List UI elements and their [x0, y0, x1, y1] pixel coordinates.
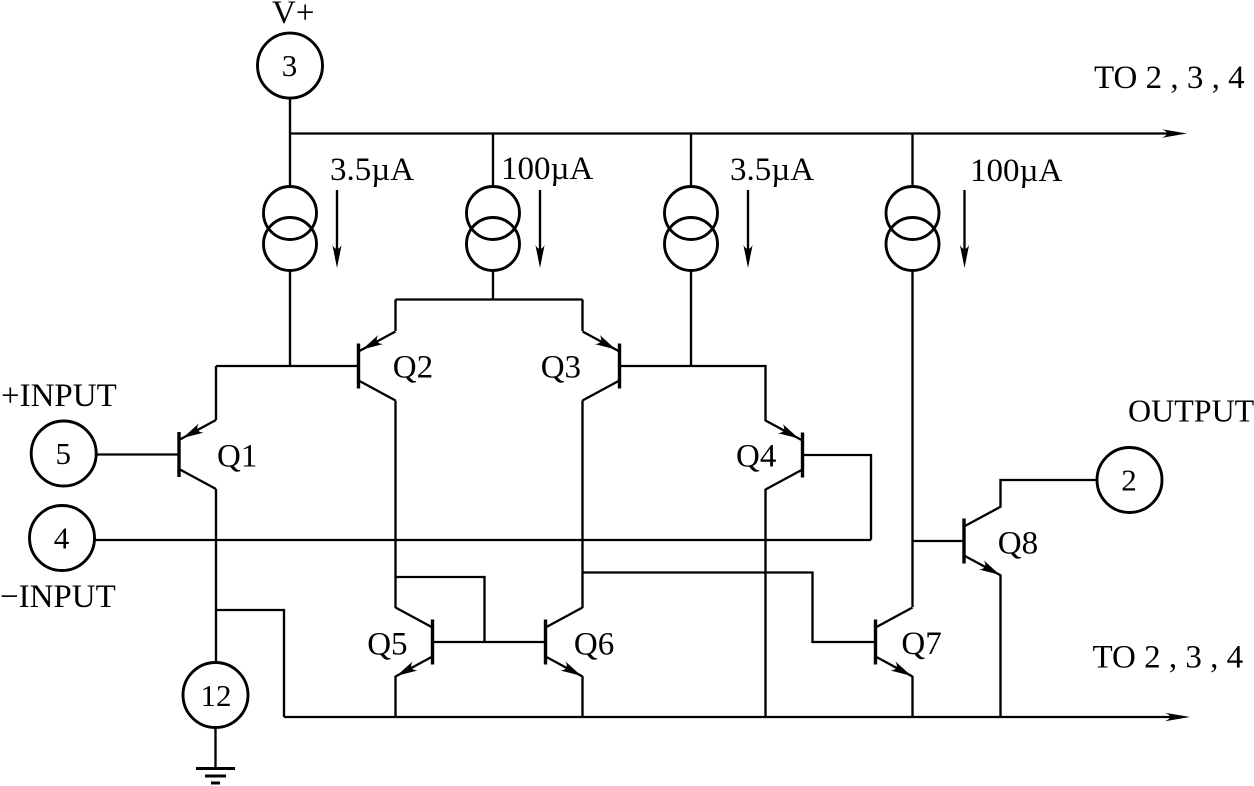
label 100uA (I4): [970, 153, 1063, 189]
top rail arrowhead: [1162, 129, 1187, 137]
label 3.5uA (I1): [330, 152, 414, 188]
svg-text:3.5µA: 3.5µA: [330, 152, 414, 188]
svg-text:3.5µA: 3.5µA: [730, 152, 814, 188]
wire Q3 base to Q4: [620, 366, 766, 421]
wire pin5 to Q1 base: [96, 453, 179, 455]
svg-text:OUTPUT: OUTPUT: [1128, 393, 1254, 429]
wire rail to I4: [911, 134, 913, 188]
svg-text:Q4: Q4: [736, 439, 776, 475]
pin 3 (V+): [258, 33, 323, 98]
transistor Q5: [367, 608, 432, 681]
svg-text:12: 12: [201, 678, 232, 713]
pin 4 (-input): [30, 506, 95, 571]
wire pin3 drop: [289, 98, 291, 133]
wire rail to I3: [690, 134, 692, 188]
transistor Q8: [964, 507, 1038, 580]
net label V+: [272, 0, 314, 31]
wire Q2 collector riser: [394, 401, 396, 609]
wire Q2 emitter riser: [394, 300, 396, 332]
wire Q3 collector riser: [581, 401, 583, 609]
wire Q7 emitter drop: [911, 676, 913, 717]
wire to pin 12: [215, 610, 217, 663]
bottom rail arrowhead: [1165, 713, 1190, 721]
wire Q3 emitter riser: [581, 300, 583, 332]
current arrow I3: [743, 190, 752, 268]
wire Q5-Q6 base: [433, 641, 546, 643]
svg-text:3: 3: [282, 48, 298, 83]
svg-text:4: 4: [54, 521, 70, 556]
wire I2 to node: [492, 271, 494, 300]
pin 2 (output): [1097, 448, 1162, 513]
wire I3 to node: [690, 271, 692, 367]
transistor Q7: [876, 608, 942, 681]
current source I2 (100uA): [467, 187, 520, 271]
wire Q8 base: [913, 540, 965, 542]
svg-text:5: 5: [55, 436, 71, 471]
current arrow I1: [332, 190, 341, 268]
wire Q1 collector riser: [215, 489, 217, 610]
wire Q6 emitter drop: [581, 676, 583, 717]
transistor Q3: [541, 332, 620, 401]
wire Q1 emitter to Q2 base: [216, 365, 359, 367]
svg-text:TO 2 , 3 , 4: TO 2 , 3 , 4: [1093, 640, 1244, 676]
current source I4 (100uA): [886, 187, 939, 271]
pin 5 (+input): [31, 421, 96, 486]
transistor Q4: [736, 421, 803, 490]
pin 12: [183, 663, 248, 728]
svg-text:+INPUT: +INPUT: [1, 378, 117, 414]
current source I3 (3.5uA): [665, 187, 718, 271]
svg-text:2: 2: [1121, 463, 1137, 498]
net label +INPUT: [1, 378, 117, 414]
current source I1 (3.5uA): [264, 187, 317, 271]
svg-text:Q5: Q5: [367, 627, 407, 663]
ground: [196, 769, 235, 784]
label 3.5uA (I3): [730, 152, 814, 188]
current arrow I2: [535, 190, 544, 268]
svg-text:Q8: Q8: [998, 526, 1038, 562]
wire Q4 collector drop: [764, 489, 766, 717]
transistor Q6: [546, 608, 615, 681]
wire second stage to Q7 base: [583, 573, 876, 643]
wire Q8 emitter drop: [999, 575, 1001, 717]
svg-text:Q2: Q2: [393, 350, 433, 386]
transistor Q2: [359, 332, 434, 401]
wire Q5-Q6 mirror tie: [396, 577, 485, 642]
wire Q2-Q3 emitter tie: [396, 298, 583, 300]
wire bottom rail: [284, 716, 1171, 718]
wire rail to I2: [492, 134, 494, 188]
net label OUTPUT: [1128, 393, 1254, 429]
wire rail to I1: [289, 134, 291, 188]
wire Q8 collector to pin2: [1001, 480, 1098, 507]
svg-text:Q7: Q7: [901, 626, 941, 662]
net label -INPUT: [0, 579, 116, 615]
wire I4 to Q7 collector: [911, 271, 913, 608]
label 100uA (I2): [501, 151, 594, 187]
wire Q4 base: [803, 455, 872, 540]
net label TO 2,3,4 (bottom): [1093, 640, 1244, 676]
svg-text:Q3: Q3: [541, 350, 581, 386]
current arrow I4: [960, 190, 969, 268]
wire pin4 row: [95, 539, 872, 541]
wire Q1 emitter riser: [215, 366, 217, 420]
svg-text:Q6: Q6: [574, 627, 614, 663]
svg-text:Q1: Q1: [217, 438, 257, 474]
svg-text:V+: V+: [272, 0, 314, 31]
svg-text:100µA: 100µA: [501, 151, 594, 187]
transistor Q1: [179, 420, 257, 489]
wire Q5 emitter drop: [394, 676, 396, 717]
wire Q1 collector branch: [216, 610, 284, 717]
svg-text:−INPUT: −INPUT: [0, 579, 116, 615]
wire I1 to node: [289, 271, 291, 367]
wire pin12 to ground: [214, 727, 216, 768]
wire V+ rail: [290, 132, 1168, 134]
svg-text:TO 2 , 3 , 4: TO 2 , 3 , 4: [1094, 60, 1245, 96]
net label TO 2,3,4 (top): [1094, 60, 1245, 96]
svg-text:100µA: 100µA: [970, 153, 1063, 189]
